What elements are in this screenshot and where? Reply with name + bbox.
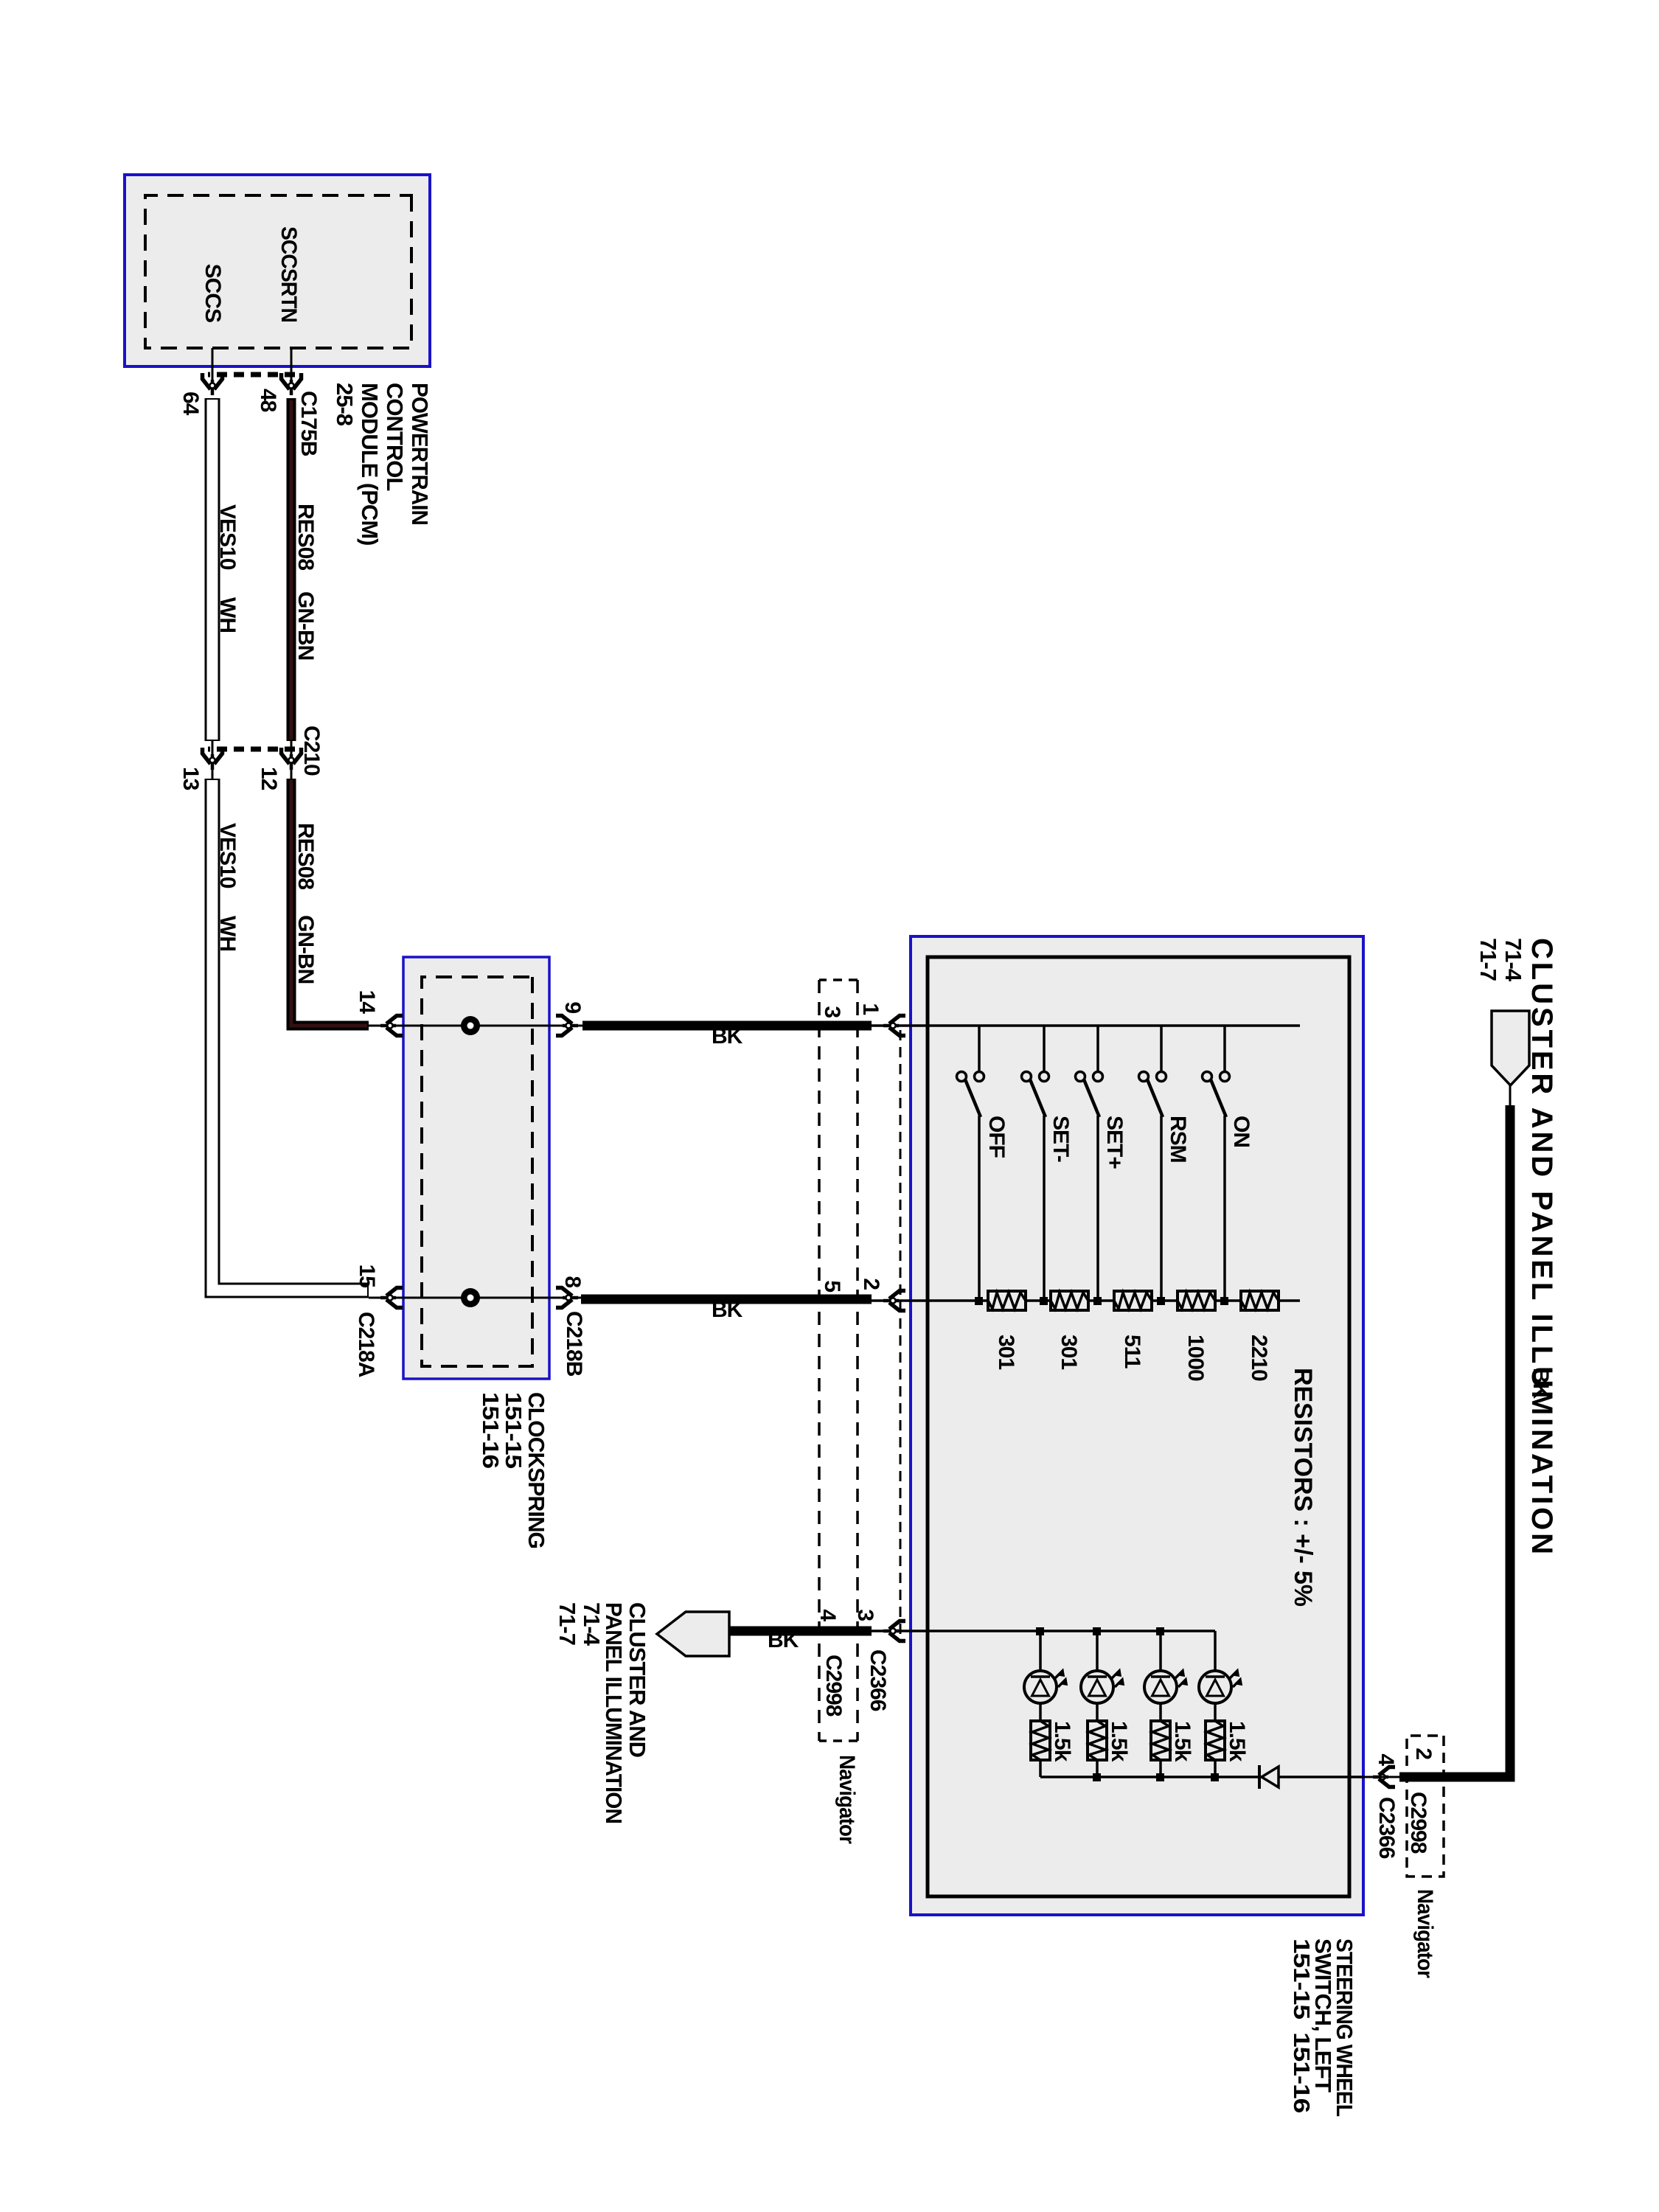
svg-text:SCCS: SCCS <box>201 264 225 322</box>
pin 14 arrow <box>380 1016 403 1036</box>
LED bus A (from pin 3) <box>872 1630 1215 1632</box>
svg-text:2: 2 <box>1411 1747 1436 1759</box>
svg-text:71-7: 71-7 <box>554 1602 580 1645</box>
svg-text:VES10: VES10 <box>215 504 240 570</box>
svg-text:MODULE (PCM): MODULE (PCM) <box>357 383 383 545</box>
svg-text:12: 12 <box>257 767 281 790</box>
pin 9 arrow <box>556 1016 578 1036</box>
svg-text:OFF: OFF <box>984 1116 1009 1158</box>
connector C2998 (right, dashed box) <box>1407 1736 1444 1877</box>
wire through clockspring (pin 15 to 8) <box>369 1297 582 1299</box>
clockspring dashed outline <box>422 977 532 1366</box>
svg-text:SET+: SET+ <box>1102 1116 1127 1169</box>
off-page connector: cluster and panel illumination (right) <box>1492 1011 1529 1107</box>
svg-text:25-8: 25-8 <box>332 383 358 426</box>
resistor 1000 (RSM) <box>1178 1291 1215 1381</box>
svg-text:C175B: C175B <box>296 391 321 456</box>
svg-text:1.5k: 1.5k <box>1170 1721 1194 1762</box>
off-page connector: cluster and panel illumination (bottom) <box>657 1612 729 1656</box>
pin 48 connector arrow <box>282 373 302 395</box>
thin lead at pin 4 <box>1363 1776 1399 1778</box>
C210 pin 12 wire gap <box>291 741 293 779</box>
wire through clockspring (pin 14 to 9) <box>369 1025 582 1027</box>
pin 64 connector arrow <box>203 373 223 395</box>
svg-text:9: 9 <box>560 1001 585 1013</box>
C210 pin 12 arrow <box>282 748 302 770</box>
svg-text:1: 1 <box>858 1003 883 1015</box>
svg-text:8: 8 <box>560 1276 585 1287</box>
switch RSM <box>1139 1026 1191 1305</box>
svg-text:WH: WH <box>215 597 240 633</box>
svg-text:151-15 151-16: 151-15 151-16 <box>1289 1938 1315 2113</box>
resistor 1.5k (branch 1) <box>1031 1721 1050 1760</box>
resistor 1.5k (branch 3) <box>1151 1721 1170 1760</box>
LED branch 3 <box>1156 1627 1164 1781</box>
svg-text:151-16: 151-16 <box>478 1392 504 1469</box>
resistor 1.5k (branch 4) <box>1206 1721 1225 1760</box>
svg-text:71-7: 71-7 <box>1475 938 1501 981</box>
svg-text:C218B: C218B <box>562 1311 586 1377</box>
LED branch 4 <box>1211 1631 1219 1781</box>
svg-text:WH: WH <box>215 916 240 951</box>
svg-text:1.5k: 1.5k <box>1107 1721 1131 1762</box>
svg-text:2210: 2210 <box>1247 1335 1271 1381</box>
svg-text:Navigator: Navigator <box>835 1755 859 1844</box>
LED branch 1 <box>1036 1627 1044 1777</box>
svg-text:C2998: C2998 <box>821 1655 846 1717</box>
wire BK pin 4 to cluster illumination (thick, two corners) <box>1399 1105 1510 1777</box>
pin 4 arrow <box>1373 1767 1395 1787</box>
grommet on wire 2 <box>461 1288 480 1307</box>
resistor 301 (OFF) <box>988 1291 1026 1369</box>
svg-text:13: 13 <box>178 767 203 790</box>
wire VES10 WH segment PCM to C210 (white wire) <box>205 398 220 741</box>
LED D2 <box>1081 1671 1123 1703</box>
svg-text:RES08: RES08 <box>293 823 318 889</box>
pin 8 arrow <box>556 1288 578 1308</box>
svg-text:5: 5 <box>820 1280 844 1292</box>
switch OFF <box>957 1026 1009 1305</box>
svg-text:BK: BK <box>712 1024 743 1048</box>
wire VES10 WH segment C210 to clockspring (white wire, corner up) <box>212 779 369 1290</box>
svg-text:3: 3 <box>820 1006 844 1018</box>
svg-text:VES10: VES10 <box>215 823 240 888</box>
clockspring box <box>403 957 549 1379</box>
module box: POWERTRAIN CONTROL MODULE (PCM) <box>125 175 430 366</box>
bus 2 (from pin 2, resistor chain) <box>872 1299 1300 1302</box>
svg-text:RES08: RES08 <box>293 504 318 570</box>
resistor 1.5k (branch 2) <box>1088 1721 1107 1760</box>
svg-text:CLOCKSPRING: CLOCKSPRING <box>524 1392 549 1548</box>
wire BK pin 3 to cluster illumination (thick) <box>729 1627 872 1636</box>
svg-text:C2366: C2366 <box>1374 1797 1399 1859</box>
PCM internal dashed outline <box>145 195 411 348</box>
wire BK clockspring pin 9 to switch pin 1 (thick) <box>582 1021 872 1031</box>
LED branch 2 <box>1093 1627 1101 1781</box>
bus 1 (from pin 1) <box>872 1024 1300 1027</box>
component box: STEERING WHEEL SWITCH, LEFT <box>911 936 1363 1915</box>
svg-text:71-4: 71-4 <box>579 1602 605 1646</box>
svg-text:64: 64 <box>178 392 203 416</box>
svg-text:ON: ON <box>1229 1116 1253 1147</box>
in-line connector C2998 (Navigator) dashed lines <box>819 980 858 1741</box>
svg-text:71-4: 71-4 <box>1500 938 1526 982</box>
svg-text:1.5k: 1.5k <box>1225 1721 1249 1762</box>
svg-text:GN-BN: GN-BN <box>293 915 318 984</box>
svg-text:2: 2 <box>859 1278 883 1290</box>
pin 15 arrow <box>380 1288 403 1308</box>
svg-text:BK: BK <box>712 1298 743 1322</box>
resistor 511 (SET+) <box>1114 1291 1152 1368</box>
C210 pin 13 wire gap <box>212 741 214 779</box>
svg-text:151-15: 151-15 <box>501 1392 526 1469</box>
svg-text:C210: C210 <box>299 726 324 776</box>
svg-text:4: 4 <box>1374 1753 1398 1766</box>
grommet on wire 1 <box>461 1016 480 1035</box>
switch box inner rectangle <box>928 957 1349 1896</box>
switch ON <box>1203 1026 1254 1305</box>
svg-text:CONTROL: CONTROL <box>382 383 408 490</box>
svg-text:C218A: C218A <box>354 1312 378 1377</box>
svg-text:15: 15 <box>355 1265 379 1288</box>
wire RES08 GN-BN segment PCM to C210 (thick, dark core) <box>287 398 296 741</box>
connector C175B dashed bar <box>208 372 295 378</box>
resistor 2210 (ON) <box>1241 1291 1279 1381</box>
switch SET- <box>1022 1026 1074 1305</box>
svg-text:14: 14 <box>355 990 379 1015</box>
svg-text:Navigator: Navigator <box>1413 1889 1437 1978</box>
diode on bus B <box>1259 1765 1279 1789</box>
svg-text:CLUSTER AND PANEL ILLUMINATION: CLUSTER AND PANEL ILLUMINATION <box>1526 938 1558 1557</box>
svg-text:BK: BK <box>768 1628 799 1652</box>
wire RES08 GN-BN segment C210 to clockspring (thick, corner up) <box>291 779 369 1026</box>
svg-text:1000: 1000 <box>1183 1335 1208 1381</box>
pin 64 stub wire <box>212 348 214 386</box>
pin 2 arrow <box>883 1291 905 1311</box>
svg-text:1.5k: 1.5k <box>1050 1721 1074 1762</box>
svg-text:PANEL ILLUMINATION: PANEL ILLUMINATION <box>601 1602 627 1823</box>
LED D4 <box>1199 1671 1241 1703</box>
pin 48 stub wire <box>291 348 293 386</box>
svg-text:C2998: C2998 <box>1406 1792 1430 1854</box>
svg-text:SCCSRTN: SCCSRTN <box>276 226 301 322</box>
LED bus B (to diode and pin 4) <box>1040 1775 1363 1778</box>
C210 pin 13 arrow <box>203 748 223 770</box>
pin 3 arrow <box>883 1621 905 1641</box>
svg-text:301: 301 <box>994 1335 1018 1369</box>
svg-text:RESISTORS : +/- 5%: RESISTORS : +/- 5% <box>1289 1368 1317 1607</box>
svg-text:SET-: SET- <box>1048 1116 1073 1162</box>
svg-text:3: 3 <box>853 1609 877 1621</box>
svg-text:GN-BN: GN-BN <box>293 591 318 660</box>
svg-text:301: 301 <box>1057 1335 1081 1369</box>
LED D3 <box>1144 1671 1186 1703</box>
connector C2366 dashed line <box>900 1030 902 1643</box>
svg-text:511: 511 <box>1120 1335 1144 1368</box>
connector C210 dashed bar <box>208 747 295 752</box>
svg-text:CLUSTER AND: CLUSTER AND <box>625 1602 650 1758</box>
svg-text:POWERTRAIN: POWERTRAIN <box>407 383 433 525</box>
pin 1 arrow <box>883 1016 905 1036</box>
switch SET+ <box>1076 1026 1127 1305</box>
svg-text:RSM: RSM <box>1166 1116 1190 1163</box>
LED D1 <box>1024 1671 1066 1703</box>
svg-text:C2366: C2366 <box>866 1649 890 1711</box>
svg-text:4: 4 <box>815 1609 840 1621</box>
resistor 301 (SET-) <box>1051 1291 1088 1369</box>
wire BK clockspring pin 8 to switch pin 2 (thick) <box>581 1295 872 1304</box>
svg-text:48: 48 <box>256 389 280 412</box>
